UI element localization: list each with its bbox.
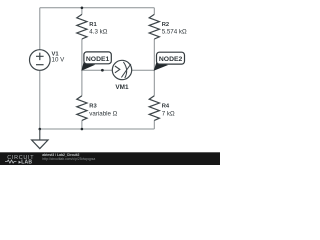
wire left column upper (top corner to V1 top)	[39, 8, 41, 50]
resistor R4	[149, 96, 159, 121]
wire voltmeter row left	[82, 69, 113, 71]
wire bottom horizontal	[40, 128, 155, 130]
watermark bar	[0, 152, 220, 165]
svg-text:7 kΩ: 7 kΩ	[162, 110, 175, 117]
wire mid column R1-R3	[81, 8, 83, 129]
svg-text:variable Ω: variable Ω	[89, 111, 117, 118]
svg-text:NODE1: NODE1	[86, 56, 110, 63]
resistor R1	[77, 14, 87, 39]
node flag NODE2 pointer	[154, 63, 167, 71]
svg-text:R2: R2	[162, 22, 169, 28]
node flag NODE1 pointer	[82, 62, 94, 70]
svg-text:NODE2: NODE2	[159, 56, 183, 63]
svg-text:4.3 kΩ: 4.3 kΩ	[89, 29, 107, 36]
svg-text:VM1: VM1	[115, 84, 129, 91]
watermark logo zigzag	[5, 160, 16, 163]
voltage source V1	[30, 50, 51, 71]
svg-text:5.574 kΩ: 5.574 kΩ	[162, 29, 187, 36]
resistor R2	[149, 14, 159, 39]
svg-text:http://circuitlab.com/c/p/25dw: http://circuitlab.com/c/p/25dwpqpsa	[42, 157, 95, 161]
resistor R3	[77, 96, 87, 121]
wire left column lower (V1 bottom to ground)	[39, 70, 41, 129]
svg-text:R3: R3	[89, 104, 97, 110]
ground	[39, 129, 41, 140]
wire voltmeter row right	[132, 69, 155, 71]
svg-text:10 V: 10 V	[52, 57, 66, 64]
node flag NODE2	[157, 52, 185, 64]
junction bottom of R3	[81, 128, 84, 131]
svg-text:R4: R4	[162, 104, 170, 110]
wire top horizontal	[40, 7, 155, 9]
voltmeter VM1	[112, 60, 131, 79]
node flag NODE1	[84, 52, 111, 64]
junction top of R1	[81, 7, 84, 10]
junction bottom left	[39, 128, 42, 131]
voltmeter terminal dot	[101, 69, 104, 72]
svg-text:▸LAB: ▸LAB	[18, 159, 33, 165]
svg-text:R1: R1	[89, 22, 97, 28]
wire right column R2-R4	[153, 8, 155, 129]
